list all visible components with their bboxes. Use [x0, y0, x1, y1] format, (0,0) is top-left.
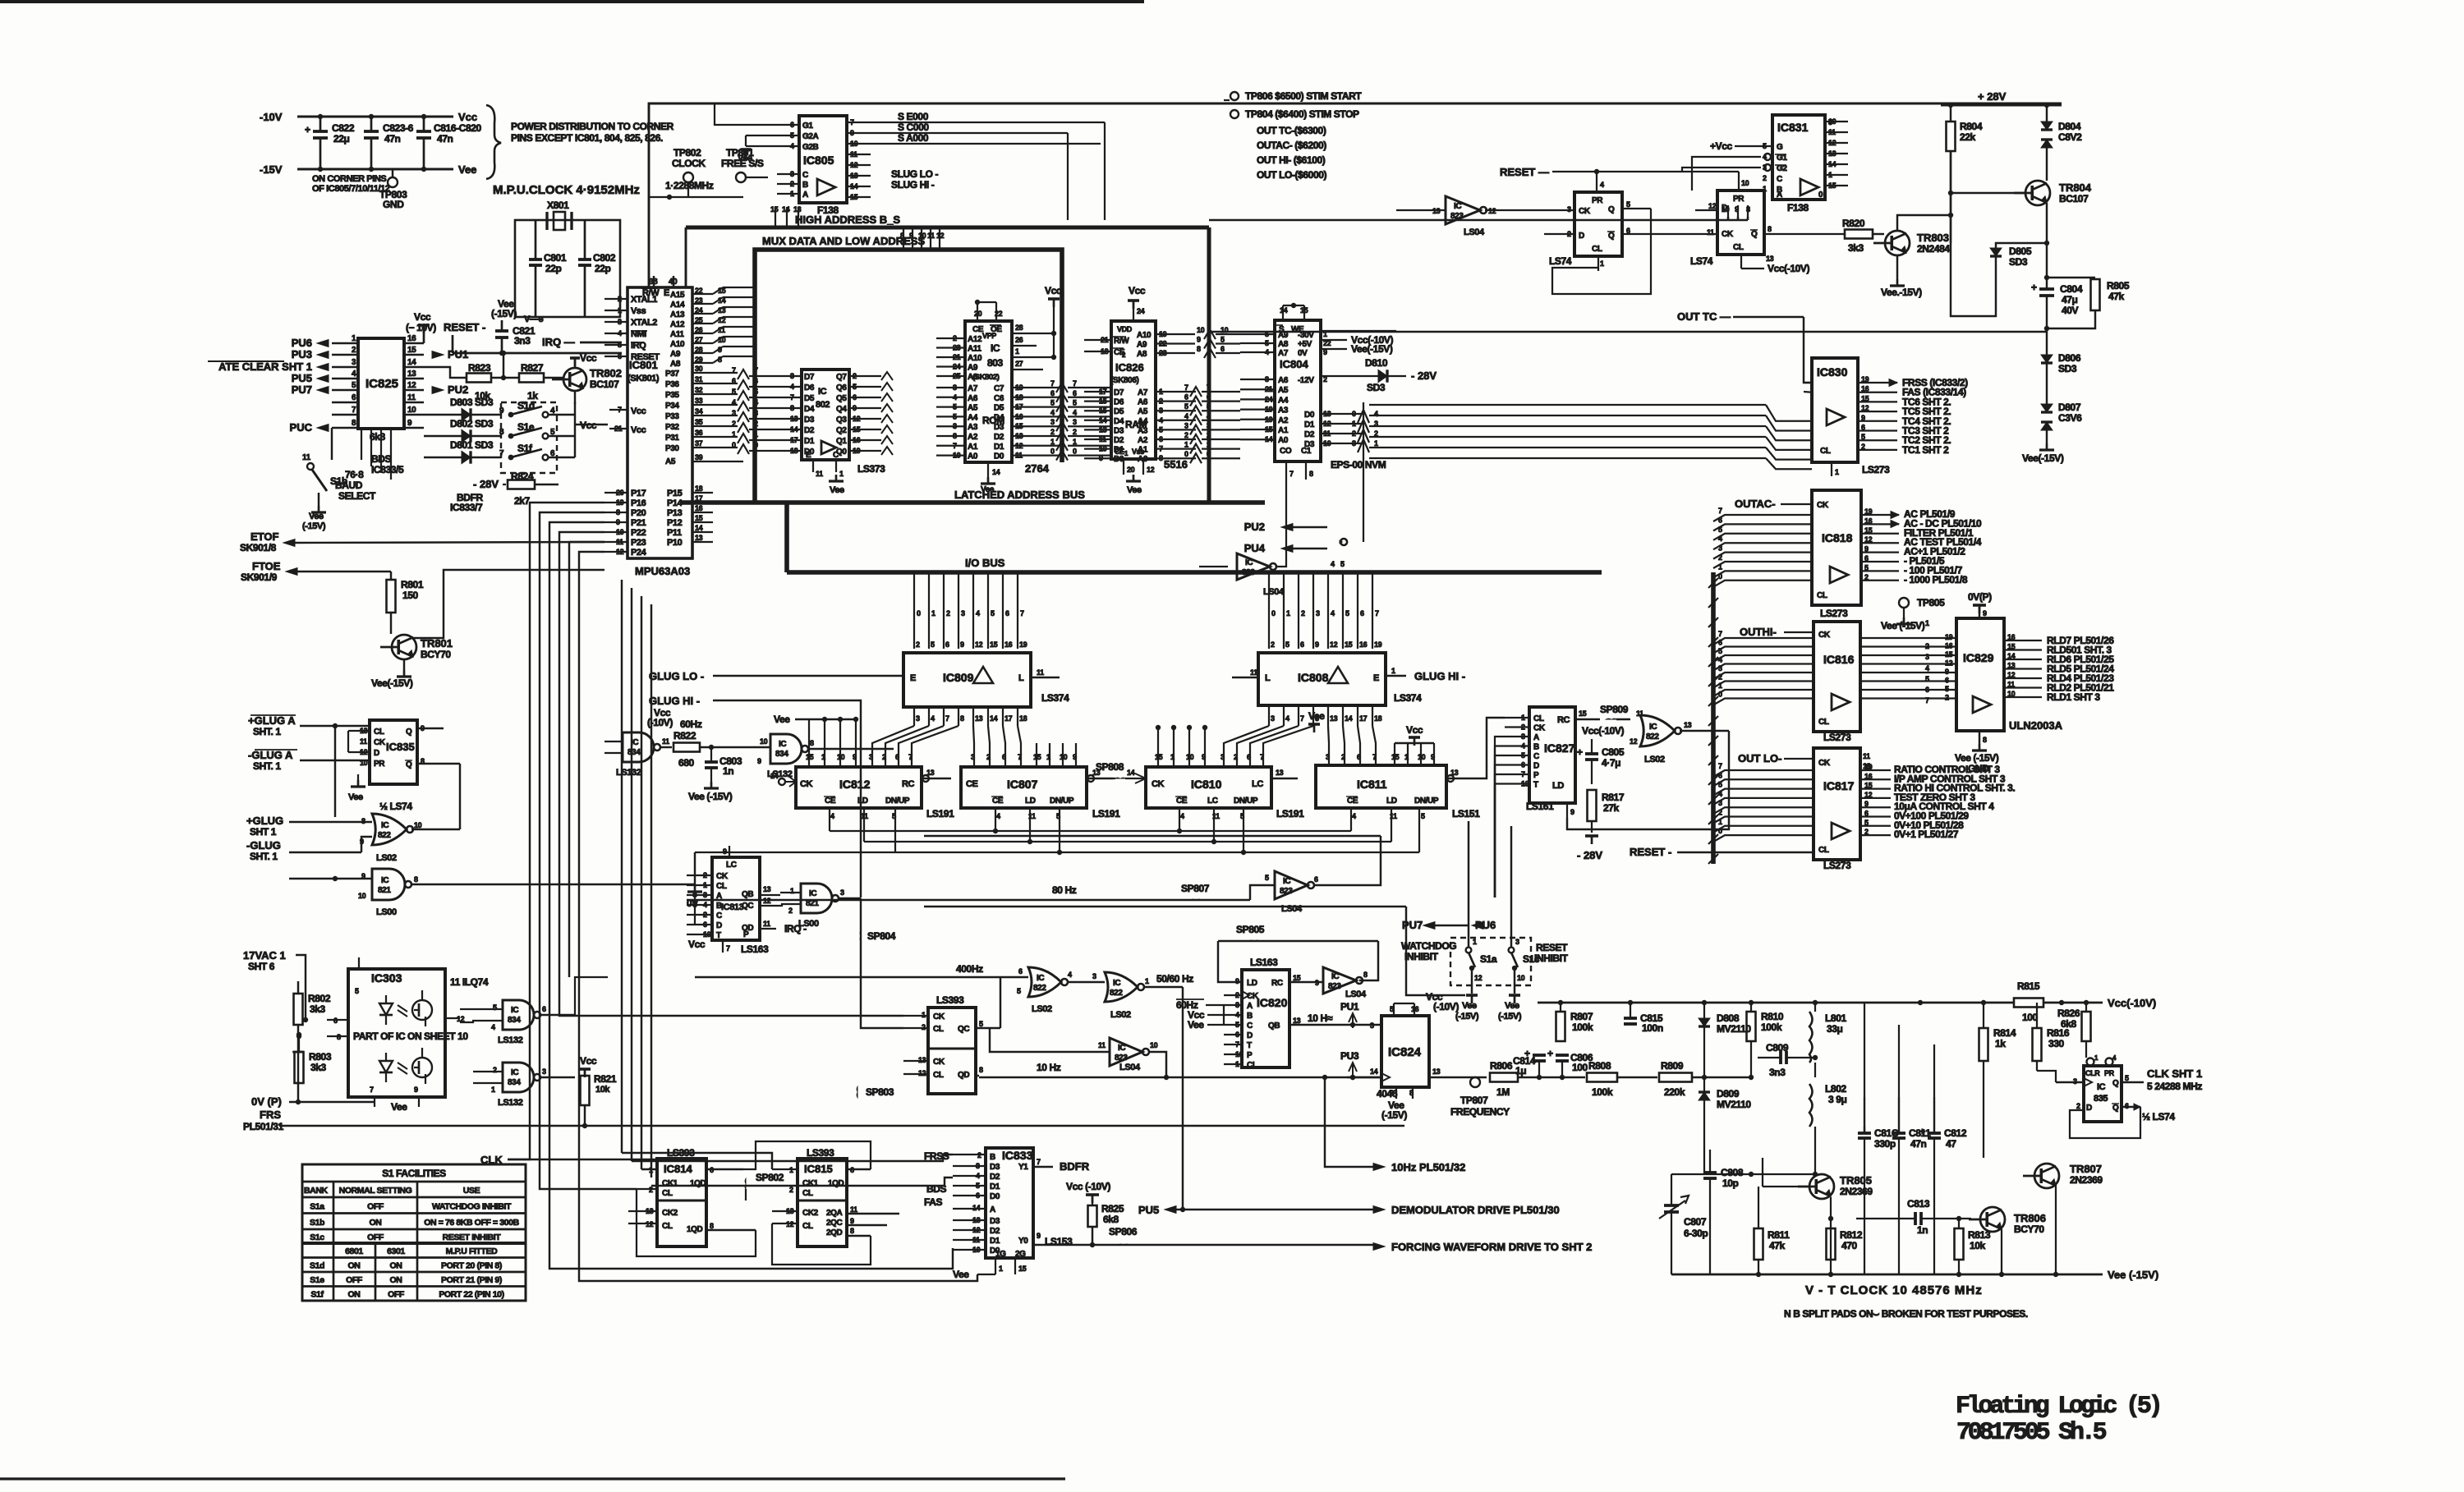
svg-text:3: 3: [1316, 609, 1320, 617]
svg-text:IC833/7: IC833/7: [450, 502, 483, 513]
power rail -15V / Vee: [297, 168, 453, 171]
svg-text:D3: D3: [1114, 426, 1124, 435]
svg-text:PU6: PU6: [1475, 919, 1496, 931]
svg-text:16: 16: [1359, 640, 1368, 649]
svg-text:CK2: CK2: [802, 1209, 819, 1218]
resistor R817 27k: [1588, 790, 1597, 821]
svg-text:LS393: LS393: [936, 994, 964, 1006]
svg-text:1M: 1M: [1496, 1086, 1510, 1098]
svg-text:CK: CK: [1152, 779, 1165, 789]
svg-text:6: 6: [1718, 771, 1722, 779]
svg-text:2: 2: [853, 372, 857, 380]
table S1 FACILITIES: [302, 1164, 526, 1301]
svg-text:LS02: LS02: [1110, 1010, 1131, 1020]
svg-text:6: 6: [1005, 609, 1009, 617]
svg-text:823: 823: [1280, 887, 1293, 896]
svg-text:5: 5: [1017, 987, 1021, 995]
svg-text:(SK802): (SK802): [972, 373, 1000, 382]
svg-text:1n: 1n: [723, 765, 733, 777]
svg-text:Vcc: Vcc: [1406, 724, 1423, 736]
svg-text:19: 19: [1374, 640, 1382, 649]
svg-text:MPU63A03: MPU63A03: [635, 565, 690, 577]
svg-text:CK: CK: [1817, 501, 1829, 510]
svg-text:3: 3: [1370, 1021, 1374, 1030]
NOR IC822 50/60Hz: [1105, 972, 1138, 1002]
svg-text:CL: CL: [802, 1189, 813, 1198]
svg-text:C823-6: C823-6: [383, 122, 414, 134]
wires latch outputs fan to counters: [872, 726, 914, 762]
resistor R811 47k: [1754, 1228, 1763, 1260]
wire PU2 PU4 arrows: [1281, 524, 1293, 531]
svg-text:VPP: VPP: [982, 332, 996, 340]
svg-text:C802: C802: [593, 252, 616, 264]
svg-text:B: B: [1247, 1012, 1253, 1021]
IC IC829 ULN2003A: [1956, 618, 2004, 731]
svg-text:15: 15: [990, 640, 998, 649]
svg-text:4: 4: [830, 812, 834, 820]
svg-text:P10: P10: [667, 538, 683, 548]
bus chevrons between IC801 and IC802: [738, 370, 749, 379]
svg-text:Q: Q: [2112, 1104, 2119, 1113]
svg-text:WATCHDOG: WATCHDOG: [1401, 940, 1456, 952]
svg-text:C7: C7: [994, 384, 1004, 393]
svg-text:3: 3: [1092, 972, 1096, 980]
svg-text:9: 9: [853, 404, 857, 412]
svg-text:47k: 47k: [2108, 291, 2125, 302]
svg-text:TP807: TP807: [1460, 1095, 1488, 1106]
svg-text:2: 2: [1234, 753, 1238, 761]
svg-text:CL: CL: [1818, 718, 1829, 727]
svg-text:20: 20: [1127, 466, 1135, 474]
svg-text:IC817: IC817: [1823, 779, 1855, 792]
svg-text:2QC: 2QC: [826, 1219, 843, 1228]
svg-text:6301: 6301: [387, 1246, 405, 1256]
svg-text:IC824: IC824: [1388, 1045, 1422, 1059]
IC IC817 LS273: [1814, 748, 1860, 860]
svg-text:OUT TC-($6300): OUT TC-($6300): [1257, 125, 1326, 136]
svg-text:822: 822: [1646, 732, 1659, 741]
svg-text:D3: D3: [990, 1217, 1000, 1226]
svg-text:CK: CK: [1818, 759, 1831, 768]
svg-text:1QD: 1QD: [828, 1179, 844, 1188]
svg-text:16: 16: [407, 334, 416, 343]
svg-text:7: 7: [754, 366, 758, 374]
svg-text:36: 36: [695, 429, 703, 437]
svg-text:P23: P23: [631, 538, 646, 548]
svg-text:C6: C6: [994, 394, 1004, 403]
svg-text:1: 1: [1763, 185, 1767, 193]
svg-text:0V (P): 0V (P): [251, 1095, 282, 1108]
svg-text:D3: D3: [994, 423, 1004, 432]
svg-text:10: 10: [760, 737, 768, 746]
svg-text:7: 7: [1184, 383, 1188, 392]
svg-text:CK1: CK1: [662, 1179, 678, 1188]
capacitor C814 1u: [1537, 1075, 1542, 1080]
resistor R803 3k3: [294, 1051, 303, 1054]
svg-text:31: 31: [695, 375, 703, 383]
oscillator bottom rail Vee: [1671, 1274, 2103, 1276]
svg-text:6: 6: [853, 393, 857, 402]
svg-text:+: +: [1547, 1048, 1553, 1059]
svg-text:24: 24: [1137, 307, 1145, 315]
svg-text:19: 19: [1019, 640, 1027, 649]
svg-text:S A000: S A000: [898, 132, 929, 144]
svg-text:IC815: IC815: [804, 1163, 833, 1175]
svg-text:IC810: IC810: [1191, 778, 1222, 791]
svg-text:D: D: [1579, 232, 1584, 241]
svg-text:R810: R810: [1761, 1011, 1784, 1022]
svg-text:6: 6: [1314, 875, 1318, 884]
svg-text:3: 3: [1718, 664, 1722, 673]
svg-text:C808: C808: [1721, 1167, 1744, 1178]
svg-text:7: 7: [370, 1086, 374, 1094]
svg-text:IC: IC: [1283, 877, 1290, 886]
svg-text:IC: IC: [1037, 974, 1044, 983]
svg-text:TC1 SHT 2: TC1 SHT 2: [1902, 444, 1949, 456]
svg-text:(SK801): (SK801): [627, 374, 660, 383]
svg-text:2N2369: 2N2369: [2070, 1174, 2103, 1186]
svg-text:R802: R802: [308, 993, 331, 1004]
svg-text:A9: A9: [968, 364, 978, 373]
svg-text:5: 5: [2125, 1074, 2129, 1082]
svg-text:3: 3: [971, 753, 975, 761]
svg-text:+ 28V: + 28V: [1978, 90, 2007, 103]
wires counters to IC827: [1470, 718, 1505, 778]
svg-text:PU3: PU3: [292, 348, 312, 360]
svg-text:Vee (-15V): Vee (-15V): [688, 791, 733, 802]
svg-text:47n: 47n: [1910, 1138, 1927, 1150]
svg-text:10: 10: [1150, 1041, 1158, 1049]
svg-text:C: C: [802, 171, 808, 180]
svg-text:27k: 27k: [1603, 802, 1620, 814]
svg-text:C812: C812: [1944, 1127, 1967, 1139]
svg-text:P37: P37: [665, 370, 679, 379]
svg-text:3 9μ: 3 9μ: [1828, 1094, 1846, 1105]
svg-text:(-15V): (-15V): [1381, 1109, 1407, 1121]
resistor R801 150: [390, 572, 392, 580]
svg-text:8: 8: [1768, 225, 1772, 233]
svg-text:14: 14: [1127, 769, 1135, 777]
svg-text:D806: D806: [2058, 352, 2081, 364]
svg-text:PU4: PU4: [1244, 542, 1266, 554]
svg-text:S E000: S E000: [898, 111, 929, 122]
wire top frame: [649, 103, 2062, 287]
svg-text:D: D: [1247, 1031, 1253, 1040]
svg-text:100k: 100k: [1592, 1086, 1613, 1098]
svg-text:PART OF IC ON SHEET 10: PART OF IC ON SHEET 10: [353, 1031, 468, 1042]
svg-text:P13: P13: [667, 508, 683, 518]
svg-text:5: 5: [1763, 142, 1767, 150]
svg-text:R/W: R/W: [1114, 337, 1129, 346]
svg-text:Vee: Vee: [1188, 1019, 1204, 1031]
svg-text:C816-C820: C816-C820: [434, 122, 481, 134]
svg-text:R821: R821: [594, 1073, 617, 1085]
svg-text:PL501/31: PL501/31: [243, 1121, 284, 1132]
svg-text:- 28V: - 28V: [1577, 849, 1602, 861]
svg-text:A: A: [1533, 733, 1539, 742]
svg-text:4: 4: [1374, 410, 1378, 418]
wire bundle MPU to bottom counters: [621, 580, 623, 1153]
svg-text:A9: A9: [670, 350, 681, 359]
IC IC805 F138: [799, 116, 847, 203]
svg-text:LS161: LS161: [1526, 801, 1554, 812]
svg-text:A2: A2: [1138, 436, 1148, 445]
svg-text:P11: P11: [667, 528, 682, 538]
svg-text:+GLUG: +GLUG: [246, 815, 283, 827]
svg-text:IC814: IC814: [664, 1163, 692, 1175]
svg-text:6: 6: [1718, 516, 1722, 524]
svg-text:1: 1: [839, 470, 844, 478]
svg-text:823: 823: [1328, 982, 1341, 991]
svg-text:S1e: S1e: [310, 1275, 324, 1285]
svg-text:Vss: Vss: [631, 306, 646, 316]
svg-text:SHT. 1: SHT. 1: [250, 851, 278, 862]
svg-text:Vee(-15V): Vee(-15V): [2022, 452, 2064, 464]
svg-text:13: 13: [790, 415, 798, 423]
IC IC806 second LS74: [1717, 191, 1764, 255]
svg-text:D801 SD3: D801 SD3: [450, 439, 494, 451]
inverter IC823 10Hz: [1110, 1038, 1142, 1066]
svg-text:A15: A15: [670, 291, 685, 300]
svg-text:11: 11: [407, 393, 416, 402]
svg-text:-10V: -10V: [260, 111, 283, 123]
svg-text:DN/UP: DN/UP: [885, 796, 910, 806]
svg-text:330: 330: [2048, 1038, 2065, 1049]
svg-text:3: 3: [754, 409, 758, 417]
svg-text:3: 3: [1718, 544, 1722, 553]
resistor R816 330: [2036, 1003, 2038, 1028]
IC IC835 half LS74 oscillator: [2087, 1058, 2094, 1066]
svg-text:9: 9: [960, 640, 964, 649]
svg-text:MV2110: MV2110: [1717, 1099, 1751, 1110]
svg-text:1: 1: [1286, 609, 1290, 617]
svg-text:ON: ON: [348, 1290, 361, 1300]
svg-text:0: 0: [1184, 450, 1188, 458]
IC IC807 LS191 counter: [961, 767, 1087, 808]
svg-text:IC812: IC812: [839, 778, 871, 791]
caps C810 C811 C812: [1864, 1127, 1865, 1133]
capacitor C801 22p: [535, 220, 537, 259]
svg-text:G: G: [1777, 143, 1783, 152]
svg-text:27: 27: [1015, 360, 1023, 368]
top border bar: [0, 0, 1144, 3]
svg-text:14: 14: [782, 205, 790, 213]
svg-text:60Hz: 60Hz: [680, 718, 702, 730]
svg-text:LC: LC: [1207, 796, 1218, 806]
svg-text:35: 35: [695, 418, 703, 426]
testpoint TP803 GND: [392, 169, 393, 177]
svg-text:A10: A10: [968, 354, 982, 363]
svg-text:14: 14: [695, 524, 703, 532]
wires IC805 output stubs: [1224, 99, 1230, 101]
svg-text:TP806 $6500) STIM START: TP806 $6500) STIM START: [1245, 90, 1362, 102]
svg-text:A12: A12: [670, 320, 685, 329]
svg-text:LS393: LS393: [807, 1147, 834, 1159]
svg-text:7: 7: [1718, 630, 1722, 638]
svg-text:821: 821: [378, 886, 391, 895]
svg-text:834: 834: [627, 748, 641, 757]
svg-text:ATE CLEAR SHT 1: ATE CLEAR SHT 1: [218, 360, 312, 373]
svg-text:1QD: 1QD: [687, 1225, 703, 1234]
svg-text:+: +: [1577, 746, 1583, 758]
svg-text:13: 13: [763, 885, 771, 893]
svg-text:CK: CK: [1818, 631, 1831, 640]
svg-text:P24: P24: [631, 548, 647, 558]
svg-text:D4: D4: [804, 405, 815, 414]
svg-text:LS153: LS153: [1045, 1236, 1073, 1247]
svg-text:7: 7: [1018, 753, 1022, 761]
svg-text:10 Hz: 10 Hz: [1037, 1062, 1061, 1073]
svg-text:8: 8: [1363, 971, 1368, 979]
svg-text:P36: P36: [665, 380, 679, 389]
svg-text:D: D: [2086, 1104, 2092, 1113]
svg-text:4: 4: [1050, 408, 1055, 416]
inverter IC823 below IC804: [1237, 553, 1270, 580]
svg-text:Vee (-15V): Vee (-15V): [1955, 752, 1999, 764]
svg-text:LS04: LS04: [1345, 989, 1367, 999]
svg-text:R817: R817: [1602, 792, 1625, 803]
svg-text:34: 34: [695, 407, 703, 415]
capacitor C803 1n: [710, 747, 712, 762]
svg-text:33: 33: [695, 397, 703, 405]
svg-text:823: 823: [1450, 212, 1464, 221]
svg-text:834: 834: [508, 1078, 521, 1087]
svg-text:150: 150: [402, 590, 419, 601]
svg-text:X801: X801: [547, 200, 569, 211]
svg-text:R807: R807: [1570, 1011, 1593, 1022]
svg-text:4: 4: [1180, 812, 1184, 820]
svg-text:D5: D5: [1114, 407, 1124, 416]
svg-text:SP807: SP807: [1181, 883, 1210, 894]
svg-text:C813: C813: [1907, 1198, 1930, 1210]
svg-text:D2: D2: [1114, 436, 1124, 445]
IC IC812 LS191 counter: [796, 767, 922, 808]
svg-text:76·8: 76·8: [345, 469, 364, 480]
svg-text:PU2: PU2: [448, 383, 468, 396]
svg-text:LS191: LS191: [1092, 808, 1120, 819]
svg-text:A10: A10: [1137, 331, 1152, 340]
svg-text:Vcc(-10V): Vcc(-10V): [1582, 725, 1624, 737]
inductor L802 3.9u: [1809, 1084, 1813, 1127]
svg-text:2: 2: [1718, 553, 1722, 562]
svg-text:PU1: PU1: [448, 348, 468, 360]
svg-text:D: D: [374, 749, 379, 758]
svg-text:LS273: LS273: [1862, 464, 1890, 475]
IC IC811 LS191 counter: [1316, 765, 1446, 808]
svg-text:OUTAC-: OUTAC-: [1735, 498, 1776, 510]
svg-text:823: 823: [1242, 568, 1255, 577]
svg-text:A6: A6: [968, 394, 978, 403]
svg-text:Q: Q: [1608, 232, 1615, 241]
svg-text:10: 10: [1197, 326, 1205, 334]
svg-text:DN/UP: DN/UP: [1050, 796, 1074, 806]
svg-text:LS02: LS02: [1032, 1004, 1052, 1014]
long data wires from NVM right: [1369, 404, 1766, 406]
svg-text:11: 11: [1863, 752, 1870, 760]
svg-text:IRQ —: IRQ —: [542, 336, 575, 348]
svg-text:IC: IC: [1113, 979, 1120, 988]
IC IC825: [358, 338, 404, 429]
label 80Hz + SP807: [687, 899, 1250, 901]
svg-text:0V: 0V: [1298, 349, 1308, 358]
svg-text:CL: CL: [1818, 846, 1829, 855]
svg-text:D1: D1: [990, 1237, 1000, 1246]
svg-text:SELECT: SELECT: [338, 490, 376, 502]
svg-text:LS04: LS04: [1119, 1063, 1141, 1072]
svg-text:SHT 1: SHT 1: [250, 826, 277, 838]
svg-text:16: 16: [1004, 640, 1013, 649]
svg-text:8: 8: [414, 875, 418, 884]
svg-text:3: 3: [1352, 439, 1356, 448]
svg-text:D2: D2: [990, 1227, 1000, 1236]
svg-text:4: 4: [1600, 181, 1604, 189]
IC IC818 LS273: [1812, 490, 1861, 605]
svg-text:3: 3: [1207, 421, 1211, 429]
svg-text:10 H≈: 10 H≈: [1308, 1012, 1333, 1024]
svg-text:Vee(-15V): Vee(-15V): [371, 677, 413, 689]
IC IC801 MPU: [627, 287, 692, 558]
wires watchdog verticals: [1468, 821, 1469, 948]
svg-text:0V(P): 0V(P): [1968, 591, 1992, 603]
svg-text:IC830: IC830: [1817, 365, 1848, 379]
testpoint TP805: [1899, 598, 1909, 608]
svg-text:D6: D6: [1114, 398, 1124, 407]
svg-text:IC807: IC807: [1007, 778, 1038, 791]
svg-text:OUTAC- ($6200): OUTAC- ($6200): [1257, 140, 1326, 151]
svg-text:1: 1: [1374, 439, 1378, 448]
svg-text:5: 5: [979, 1020, 983, 1028]
svg-text:IC: IC: [1118, 1044, 1125, 1053]
svg-text:2: 2: [788, 907, 793, 915]
transistor TR803: [1885, 231, 1910, 255]
svg-text:8: 8: [710, 1222, 714, 1230]
svg-text:P20: P20: [631, 508, 646, 518]
svg-text:XTAL1: XTAL1: [631, 295, 657, 305]
svg-text:FRS: FRS: [260, 1109, 281, 1121]
svg-text:Vee: Vee: [1462, 1001, 1477, 1011]
svg-text:2: 2: [1341, 753, 1345, 761]
svg-text:CK: CK: [800, 779, 813, 789]
split pad SP804: [859, 931, 862, 936]
svg-text:8: 8: [960, 714, 964, 723]
svg-text:7: 7: [1037, 1158, 1041, 1166]
svg-text:2: 2: [1073, 428, 1077, 436]
svg-text:1: 1: [1835, 468, 1839, 476]
IC IC808 LS374: [1258, 653, 1386, 705]
svg-text:IC829: IC829: [1963, 651, 1994, 664]
svg-text:S1c: S1c: [310, 1233, 324, 1242]
svg-text:G2A: G2A: [802, 132, 819, 141]
svg-text:E: E: [664, 288, 669, 298]
svg-text:IC804: IC804: [1280, 358, 1308, 370]
svg-text:D809: D809: [1717, 1088, 1740, 1099]
svg-text:IC: IC: [991, 342, 1000, 354]
svg-text:2764: 2764: [1025, 462, 1050, 475]
svg-text:0: 0: [1050, 448, 1055, 456]
svg-text:14: 14: [992, 468, 1000, 476]
svg-text:PU6: PU6: [292, 337, 312, 349]
svg-text:Vee: Vee: [309, 512, 324, 521]
svg-text:CL: CL: [1533, 714, 1544, 723]
bus chevrons above IC826 A10-A8: [1204, 329, 1216, 339]
IC IC827 LS161: [1529, 707, 1575, 803]
svg-text:LS04: LS04: [1464, 227, 1485, 237]
split pads chevron data to NVM: [1358, 410, 1369, 423]
svg-text:CL: CL: [933, 1025, 944, 1034]
svg-text:P34: P34: [665, 402, 679, 411]
svg-text:2QD: 2QD: [826, 1228, 843, 1237]
svg-text:4: 4: [352, 370, 356, 379]
